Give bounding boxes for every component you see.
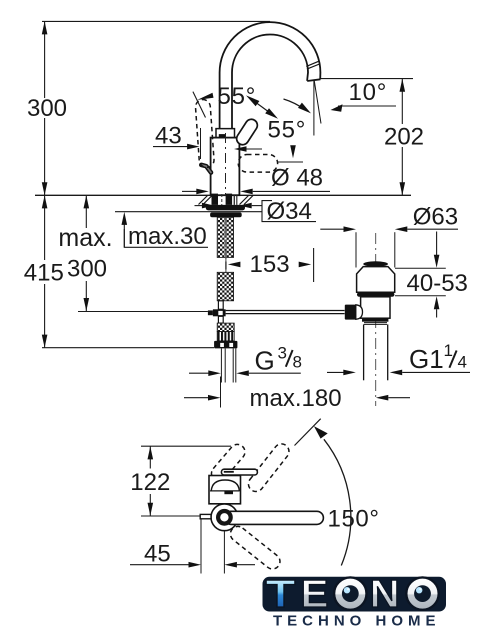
dim 415 line xyxy=(44,195,46,260)
aerator band lines xyxy=(306,61,319,66)
svg-text:Ø63: Ø63 xyxy=(413,203,458,230)
svg-text:150°: 150° xyxy=(328,506,380,533)
label 415 xyxy=(22,260,66,284)
lever top bar xyxy=(221,469,257,475)
shank centerline dashes xyxy=(221,194,223,205)
svg-text:Ø34: Ø34 xyxy=(267,198,312,225)
svg-text:8: 8 xyxy=(293,352,302,371)
svg-text:43: 43 xyxy=(155,123,182,150)
countertop hatch left xyxy=(199,196,208,205)
swivel base circle xyxy=(211,504,238,531)
label max. xyxy=(56,228,115,249)
122 top ref line xyxy=(141,445,231,447)
arrow 55B down xyxy=(290,145,296,158)
Ø63 ext lines xyxy=(355,232,357,267)
arrow max30 up xyxy=(122,212,128,225)
lever raised dashed (left) xyxy=(195,99,215,168)
svg-text:300: 300 xyxy=(67,256,107,283)
svg-text:153: 153 xyxy=(250,251,290,278)
lever dashed horizontal (right) xyxy=(238,155,277,173)
connection hoses xyxy=(220,348,222,382)
max30 box xyxy=(124,229,208,247)
202 ref line xyxy=(321,78,413,80)
shank section dark walls xyxy=(212,194,219,205)
countertop top line xyxy=(35,194,411,196)
letter O2 xyxy=(406,577,438,609)
svg-text:40-53: 40-53 xyxy=(407,270,468,297)
dim 153 arrows xyxy=(228,262,241,268)
dim max300 line xyxy=(85,195,87,228)
svg-text:4: 4 xyxy=(458,353,467,372)
10deg leader xyxy=(338,105,396,107)
FRONT-VIEW-DIMS xyxy=(35,21,411,347)
threaded shank lower xyxy=(217,272,233,301)
letter O1 xyxy=(334,577,366,609)
handle (top view, pointing right) xyxy=(224,511,323,524)
spout nozzle (top view) xyxy=(200,514,211,518)
svg-text:E: E xyxy=(301,573,329,616)
centerline xyxy=(225,133,227,196)
riser arrow left-pointing xyxy=(234,146,247,152)
svg-text:122: 122 xyxy=(130,469,170,496)
svg-text:1: 1 xyxy=(444,341,453,360)
countertop hatch right xyxy=(240,196,249,205)
arrow max300 down xyxy=(84,298,90,311)
label 300 (max) xyxy=(65,255,109,280)
drain plug cap xyxy=(363,261,388,266)
cross fitting xyxy=(213,309,226,316)
gooseneck inner xyxy=(232,35,308,129)
dim Ø63 xyxy=(320,228,344,230)
arrow 55A left xyxy=(193,92,206,118)
body top tab xyxy=(219,134,226,137)
dim 202 xyxy=(401,79,403,124)
svg-text:202: 202 xyxy=(384,123,424,150)
G1 1/4 arrows xyxy=(327,371,344,373)
43 ext line xyxy=(200,128,202,159)
tube above cross xyxy=(218,301,223,310)
swivel arc xyxy=(284,99,306,110)
handle swung dashed NE (top view) xyxy=(245,441,292,495)
svg-text:TECHNO HOME: TECHNO HOME xyxy=(273,612,441,629)
arrow 300 down xyxy=(42,182,48,195)
Ø34 box xyxy=(262,201,316,222)
svg-text:55°: 55° xyxy=(218,83,257,110)
handle ball ring xyxy=(218,511,231,524)
svg-text:55°: 55° xyxy=(268,117,307,144)
arrow 415 up xyxy=(42,195,48,208)
collar xyxy=(216,129,235,138)
arrow 415 down xyxy=(42,335,48,348)
tube below cross xyxy=(218,316,223,323)
rod knob xyxy=(356,305,363,320)
dim 45 xyxy=(130,564,189,566)
connector ribs xyxy=(217,332,234,341)
max300 bottom ref line xyxy=(78,311,208,313)
150 arc xyxy=(324,439,351,565)
dim max180 xyxy=(184,397,208,399)
gooseneck outer xyxy=(220,22,321,128)
arrow max300 up xyxy=(84,195,90,208)
svg-text:G: G xyxy=(255,345,275,375)
drain body xyxy=(361,297,390,318)
spout stream vertical line xyxy=(313,81,315,136)
double arrow diagonal xyxy=(249,98,275,117)
Ø48 arrows xyxy=(182,190,197,192)
countertop bottom line xyxy=(115,211,262,213)
lever raised 55 solid (right) xyxy=(234,117,259,147)
connector knurl block xyxy=(217,323,234,332)
svg-text:max.30: max.30 xyxy=(128,223,207,250)
svg-text:45: 45 xyxy=(144,541,171,568)
svg-text:max.: max. xyxy=(58,224,112,252)
dim 40-53 xyxy=(436,232,438,256)
drain flange xyxy=(357,267,395,293)
lock nut xyxy=(210,212,242,217)
Ø34 arrows xyxy=(195,205,203,207)
svg-text:Ø 48: Ø 48 xyxy=(271,164,323,191)
threaded shank upper xyxy=(217,217,233,257)
svg-text:415: 415 xyxy=(24,260,64,287)
pop-up rod xyxy=(226,310,345,312)
G3/8 arrows xyxy=(189,372,209,374)
FAUCET xyxy=(211,22,321,195)
153 ext line xyxy=(313,248,315,282)
shank centerline grey xyxy=(225,218,227,301)
arrow 300 up xyxy=(42,21,48,34)
outlet face xyxy=(307,79,320,81)
leader from dashed lever xyxy=(278,161,303,163)
escutcheon plate xyxy=(206,205,245,211)
svg-text:3: 3 xyxy=(278,343,287,362)
43 leader xyxy=(153,146,188,148)
svg-text:N: N xyxy=(370,573,400,616)
handle swung dashed SE (top view) xyxy=(227,523,283,572)
svg-text:T: T xyxy=(266,573,296,616)
body xyxy=(211,138,240,196)
top reference line xyxy=(42,20,270,22)
label 300 xyxy=(28,98,66,118)
150 arc arrowhead xyxy=(314,426,328,439)
hose nuts band xyxy=(214,341,237,349)
drain body lower band xyxy=(362,318,388,322)
415 bottom ref line xyxy=(42,347,214,349)
lever closed (solid, left) xyxy=(201,165,211,173)
drain gasket ring xyxy=(357,292,394,297)
drain centerline xyxy=(375,233,377,406)
122 bottom ref line xyxy=(141,515,200,517)
40-53 ext lines xyxy=(395,267,446,269)
150 ray xyxy=(295,419,321,446)
dim 122 xyxy=(149,446,151,468)
svg-text:max.180: max.180 xyxy=(250,385,342,412)
body (top view) xyxy=(209,476,241,504)
spout stream tilted line xyxy=(314,81,321,124)
45 ext lines xyxy=(200,520,202,574)
max30 arrow shaft xyxy=(123,224,125,247)
logo banner xyxy=(263,577,447,612)
LOGO xyxy=(263,573,447,629)
svg-text:G1: G1 xyxy=(409,344,444,374)
spout swung dashed (top view) xyxy=(208,441,248,484)
hose line in gap xyxy=(225,257,227,272)
svg-text:300: 300 xyxy=(27,95,67,122)
drain tailpipe xyxy=(363,324,365,380)
dim 300 line xyxy=(44,21,46,98)
svg-text:10°: 10° xyxy=(349,79,388,106)
